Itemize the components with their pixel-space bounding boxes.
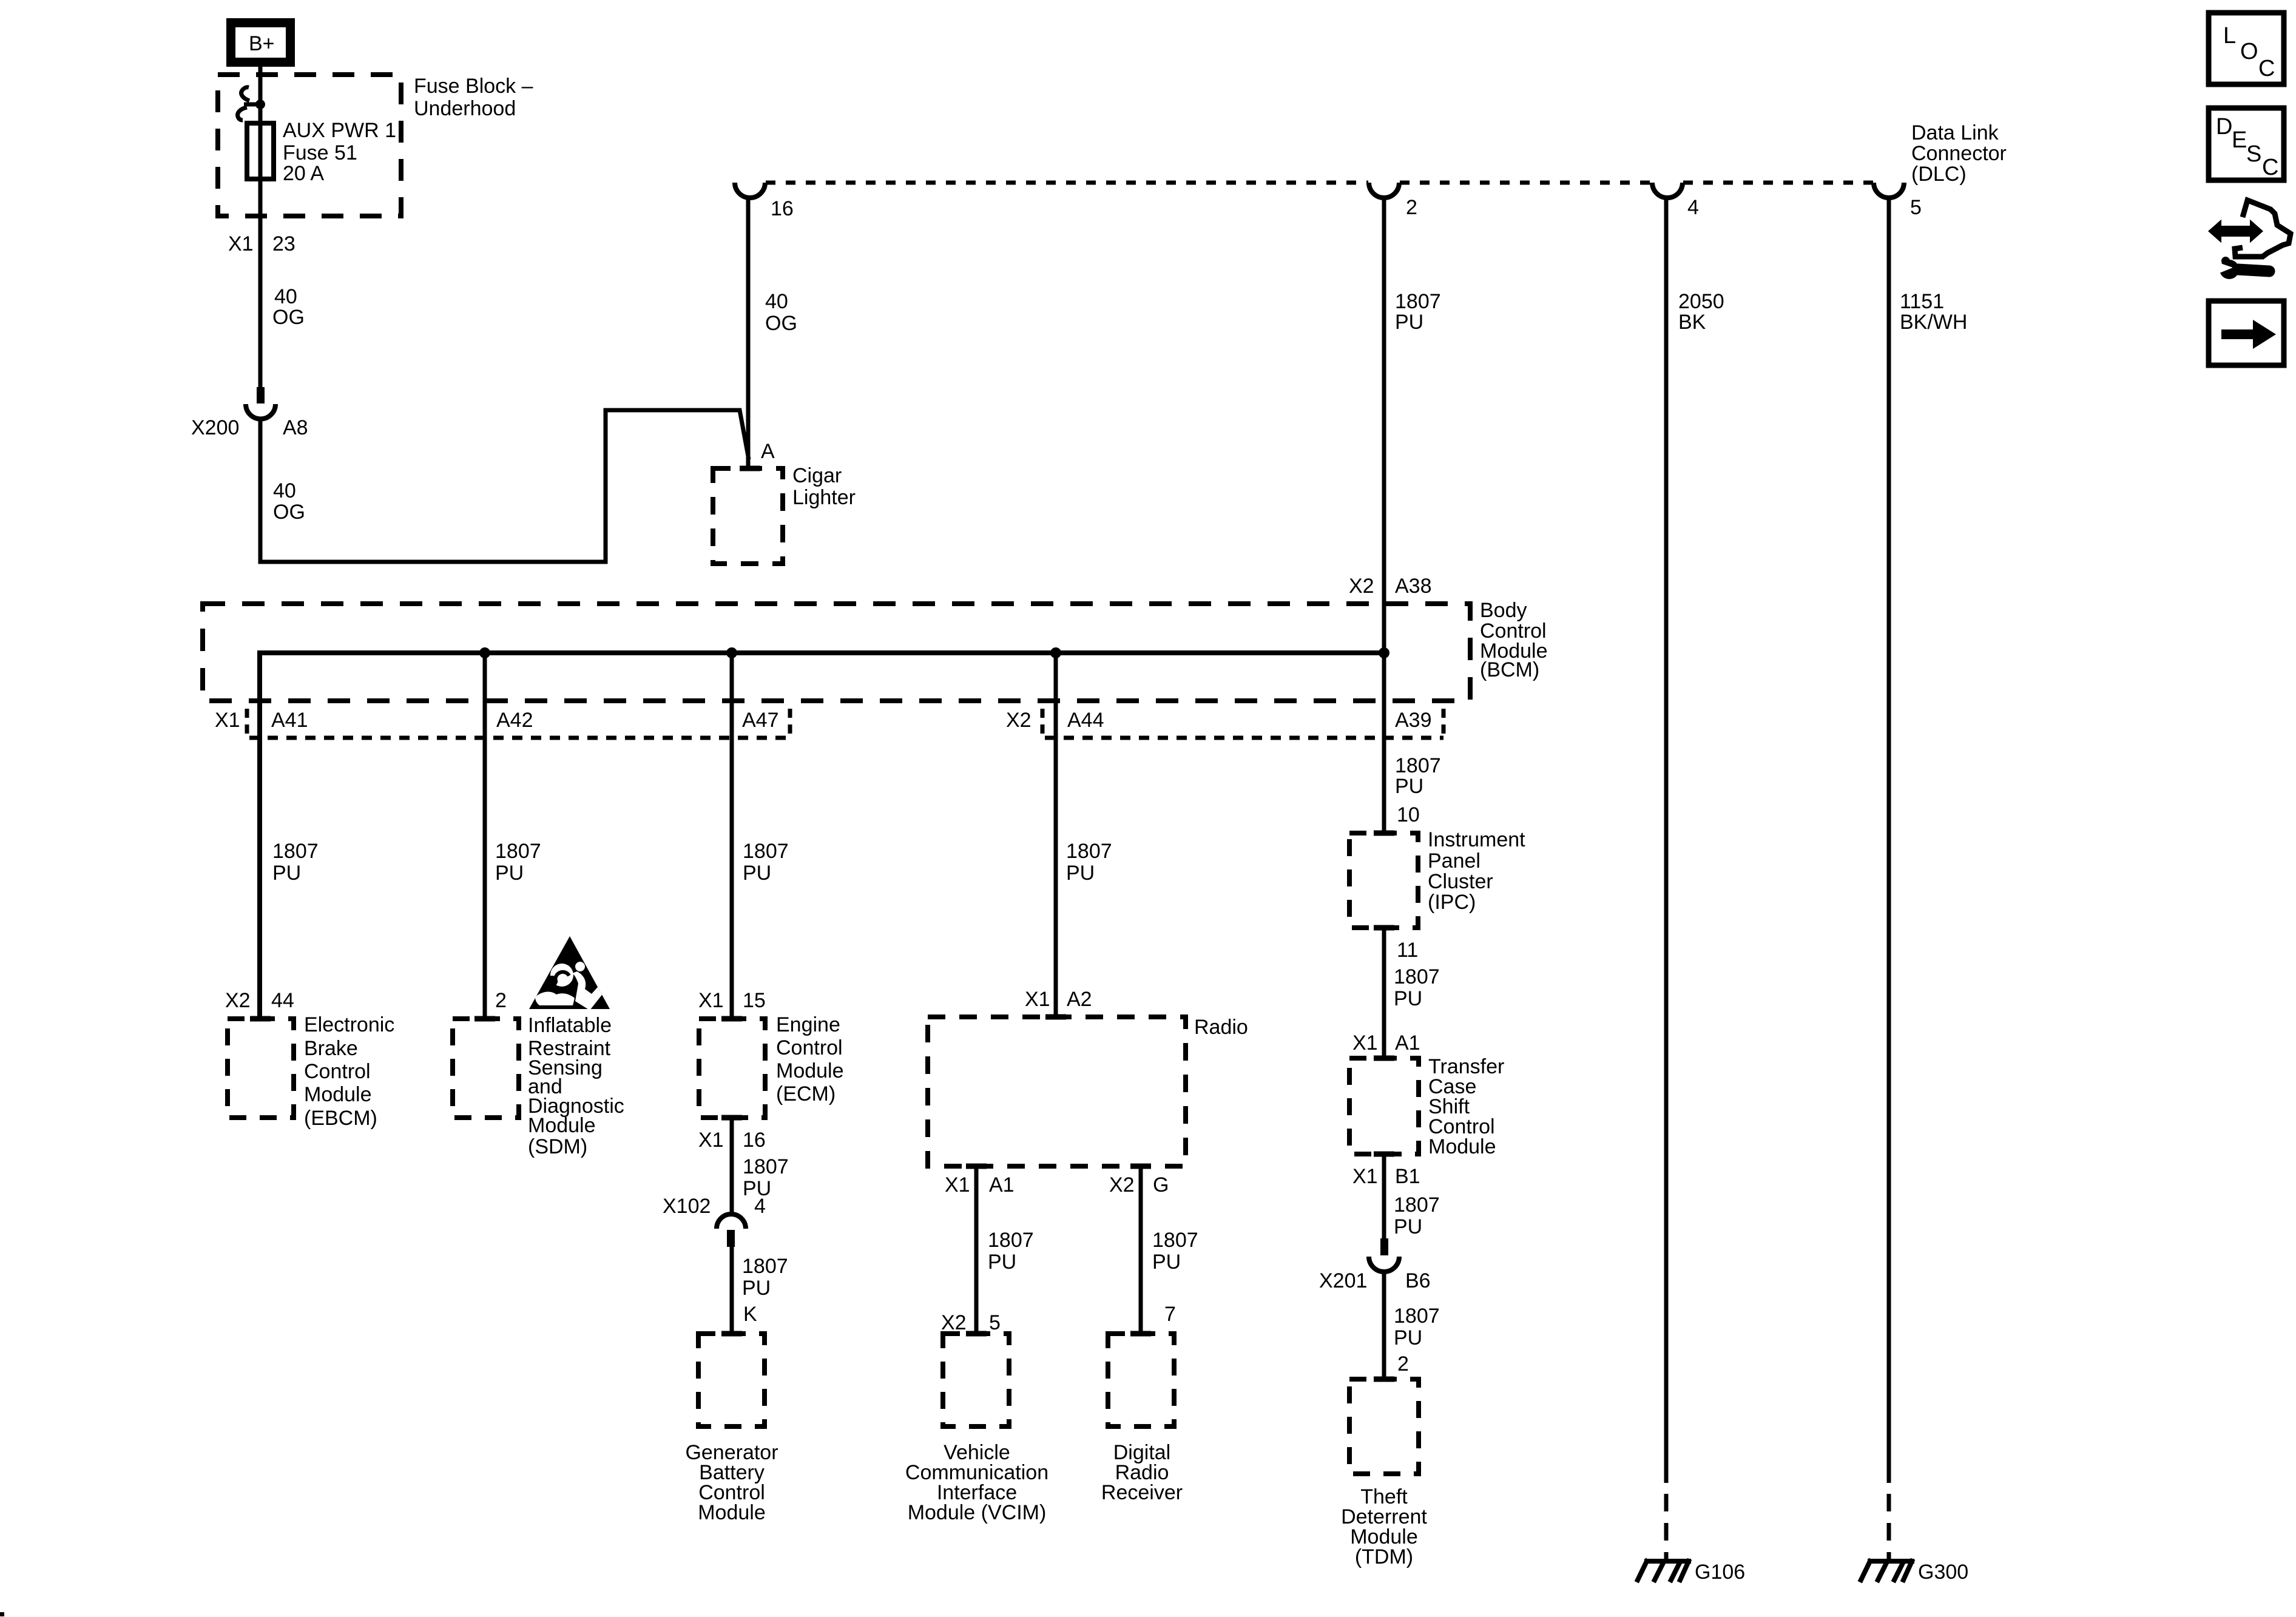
svg-text:1807: 1807 [1394, 965, 1440, 988]
theft deterrent module TDM dashed box [1349, 1379, 1419, 1474]
svg-text:G: G [1153, 1173, 1169, 1197]
BCM X1 connector bracket line [247, 709, 790, 738]
instrument panel cluster IPC dashed box [1349, 833, 1418, 928]
svg-text:A44: A44 [1067, 709, 1104, 732]
wire DLC pin 4 to ground G106 [1664, 198, 1669, 1483]
junction node A44 [1050, 647, 1061, 658]
wire radio A1 to VCIM [974, 1166, 979, 1334]
wire BCM A44 to radio [1054, 653, 1058, 1017]
svg-text:X200: X200 [191, 416, 239, 439]
speck bottom left [0, 1612, 4, 1616]
wire label 2050 BK [1678, 290, 1724, 334]
svg-text:Module: Module [304, 1083, 372, 1106]
svg-text:A: A [761, 440, 775, 463]
svg-text:10: 10 [1397, 803, 1420, 826]
pin labels X1 B1 [1352, 1165, 1420, 1188]
svg-text:Cigar: Cigar [792, 464, 842, 487]
pin T-bar at DRR top [1130, 1331, 1151, 1337]
vehicle adjust icon (car outline, double arrow, wrench) [2210, 200, 2291, 279]
wire label 1807 PU (IPC to TCSCM) [1394, 965, 1440, 1010]
svg-text:X2: X2 [941, 1311, 967, 1334]
svg-text:A42: A42 [496, 709, 533, 732]
wire label 1151 BK/WH [1900, 290, 1967, 334]
svg-text:1807: 1807 [495, 840, 541, 863]
svg-text:PU: PU [1394, 1326, 1422, 1349]
svg-text:Receiver: Receiver [1101, 1481, 1183, 1504]
wire label 1807 PU (A41) [272, 840, 319, 885]
svg-text:A1: A1 [989, 1173, 1015, 1197]
svg-text:OG: OG [273, 501, 305, 524]
pin T-bar at VCIM top [966, 1331, 987, 1337]
svg-text:1807: 1807 [272, 840, 319, 863]
pin T-bar at IPC bottom [1374, 925, 1394, 931]
label Body Control Module (BCM) [1480, 599, 1548, 681]
svg-text:A47: A47 [742, 709, 779, 732]
connector X102 (cup and blade) [717, 1214, 746, 1247]
svg-text:(IPC): (IPC) [1428, 891, 1476, 914]
radio dashed box [928, 1017, 1186, 1166]
svg-text:1807: 1807 [1152, 1229, 1198, 1252]
svg-text:PU: PU [1394, 1215, 1422, 1238]
svg-text:1807: 1807 [743, 1155, 789, 1178]
svg-text:40: 40 [274, 285, 297, 308]
transfer case shift control module dashed box [1349, 1058, 1419, 1154]
svg-text:15: 15 [743, 989, 766, 1012]
DLC pin 2 cup connector [1369, 183, 1399, 198]
svg-text:1807: 1807 [1395, 754, 1441, 777]
label Transfer Case Shift Control Module [1428, 1055, 1504, 1158]
label Instrument Panel Cluster (IPC) [1428, 828, 1525, 914]
svg-text:7: 7 [1164, 1303, 1176, 1326]
svg-text:(ECM): (ECM) [776, 1082, 836, 1106]
svg-text:A8: A8 [283, 416, 308, 439]
svg-text:X2: X2 [1006, 709, 1032, 732]
engine control module ECM dashed box [699, 1019, 765, 1118]
wire label 1807 PU (A44) [1066, 840, 1112, 885]
svg-text:1807: 1807 [988, 1229, 1034, 1252]
label Cigar Lighter [792, 464, 856, 509]
svg-text:X1: X1 [1025, 988, 1050, 1011]
svg-text:C: C [2258, 56, 2275, 81]
svg-text:PU: PU [1394, 987, 1422, 1010]
svg-text:Brake: Brake [304, 1037, 358, 1060]
label Theft Deterrent Module (TDM) [1341, 1485, 1427, 1568]
svg-text:Connector: Connector [1911, 142, 2007, 165]
ground G300 symbol [1861, 1561, 1912, 1580]
svg-text:PU: PU [743, 862, 771, 885]
svg-text:Fuse Block –: Fuse Block – [414, 75, 533, 98]
pin T-bar at SDM top [474, 1016, 495, 1022]
body control module BCM dashed box [203, 604, 1470, 701]
svg-text:B+: B+ [249, 32, 275, 55]
svg-text:Data Link: Data Link [1911, 121, 1999, 144]
pin labels X1 A1 (TCSCM) [1352, 1031, 1420, 1055]
svg-text:BK/WH: BK/WH [1900, 311, 1967, 334]
svg-text:Fuse 51: Fuse 51 [283, 141, 357, 164]
wire X201 to TDM [1382, 1272, 1386, 1379]
wire label 1807 PU (A47) [743, 840, 789, 885]
svg-text:A2: A2 [1067, 988, 1092, 1011]
svg-text:L: L [2223, 23, 2236, 49]
svg-text:1807: 1807 [1394, 1193, 1440, 1217]
DESC legend box [2209, 108, 2284, 180]
BCM pin labels X2 A38 [1349, 575, 1432, 598]
DLC pin 4 cup connector [1652, 183, 1683, 198]
svg-text:11: 11 [1397, 939, 1418, 962]
pin T-bar at radio bottom G [1130, 1164, 1151, 1169]
junction node in fuse block [255, 100, 265, 109]
wire BCM A47 to ECM [730, 653, 734, 1019]
svg-text:X2: X2 [1109, 1173, 1135, 1197]
wire label 40 OG (below X200) [273, 479, 305, 524]
svg-text:(SDM): (SDM) [528, 1135, 587, 1158]
svg-text:A41: A41 [271, 709, 308, 732]
label Digital Radio Receiver [1101, 1441, 1183, 1504]
wire DLC pin 5 to ground G300 [1887, 198, 1891, 1483]
connector pin labels X1 A41 A42 A47 [215, 709, 779, 732]
label Vehicle Communication Interface Module (VCIM) [905, 1441, 1048, 1524]
svg-text:D: D [2216, 114, 2232, 140]
BCM X2 connector bracket line [1042, 709, 1443, 738]
wire label 1807 PU (G drop) [1152, 1229, 1198, 1274]
pin labels X1 A1 (radio bottom) [945, 1173, 1015, 1197]
svg-text:OG: OG [272, 306, 305, 329]
svg-text:Engine: Engine [776, 1013, 840, 1036]
pin T-bar at radio top [1045, 1014, 1066, 1020]
pin T-bar at ECM bottom [721, 1115, 742, 1121]
svg-text:40: 40 [273, 479, 296, 502]
wire DLC pin 16 to cigar lighter [746, 198, 751, 468]
svg-text:X2: X2 [1349, 575, 1374, 598]
wire ECM pin 16 to X102 [730, 1118, 734, 1215]
svg-text:Module: Module [698, 1501, 766, 1524]
electronic brake control module EBCM dashed box [228, 1019, 294, 1118]
svg-text:20 A: 20 A [283, 162, 324, 185]
svg-text:44: 44 [271, 989, 294, 1012]
svg-text:K: K [743, 1303, 757, 1326]
label Generator Battery Control Module [685, 1441, 778, 1524]
wire label 40 OG (pin 16 drop) [765, 290, 797, 335]
svg-text:40: 40 [765, 290, 788, 313]
digital radio receiver dashed box [1108, 1334, 1174, 1426]
svg-text:Control: Control [304, 1060, 371, 1083]
svg-text:Module: Module [528, 1114, 596, 1137]
svg-text:BK: BK [1678, 311, 1706, 334]
svg-text:X102: X102 [663, 1195, 711, 1218]
wire BCM A42 to SDM [483, 653, 487, 1019]
wire label 1807 PU (A39 drop) [1395, 754, 1441, 798]
svg-text:5: 5 [989, 1311, 1001, 1334]
EBCM pin labels X2 44 [225, 989, 294, 1012]
wire label 1807 PU (A42) [495, 840, 541, 885]
svg-text:1807: 1807 [1394, 1305, 1440, 1328]
svg-text:Radio: Radio [1194, 1016, 1248, 1039]
svg-text:(BCM): (BCM) [1480, 658, 1539, 681]
connector pin labels X2 A44 A39 [1006, 709, 1432, 732]
svg-text:C: C [2262, 155, 2278, 180]
DLC dashed bus line [766, 181, 1873, 185]
svg-text:B1: B1 [1395, 1165, 1420, 1188]
svg-text:A1: A1 [1395, 1031, 1420, 1055]
svg-text:Cluster: Cluster [1428, 870, 1493, 893]
svg-text:Module: Module [1428, 1135, 1496, 1158]
svg-text:1807: 1807 [1395, 290, 1441, 313]
wire label 1807 PU (to GBCM) [742, 1255, 788, 1300]
svg-text:AUX PWR 1: AUX PWR 1 [283, 119, 396, 142]
svg-text:1151: 1151 [1900, 290, 1944, 313]
wire BCM A41 to EBCM [258, 701, 262, 1019]
cigar lighter dashed box [713, 468, 783, 564]
svg-text:X201: X201 [1319, 1269, 1367, 1292]
wire label 1807 PU (A1 drop) [988, 1229, 1034, 1274]
svg-text:X1: X1 [698, 989, 724, 1012]
bus tap hook symbol inside fuse block [238, 87, 260, 120]
wire from B+ through fuse block [258, 67, 263, 387]
svg-text:X1: X1 [215, 709, 240, 732]
svg-text:1807: 1807 [742, 1255, 788, 1278]
inflatable restraint sensing and diagnostic module SDM dashed box [453, 1019, 519, 1118]
svg-text:B6: B6 [1405, 1269, 1431, 1292]
svg-text:Panel: Panel [1428, 849, 1481, 873]
svg-text:X1: X1 [945, 1173, 970, 1197]
pin T-bar at GBCM top [721, 1331, 742, 1337]
connector X201 B6 (blade and cup) [1369, 1238, 1399, 1272]
svg-text:2: 2 [1397, 1352, 1409, 1376]
svg-text:2: 2 [1406, 196, 1417, 219]
fuse block underhood dashed box [218, 75, 401, 216]
wire X102 to generator battery control module [730, 1247, 734, 1334]
label Fuse Block - Underhood [414, 75, 533, 120]
wire from X200 down right and up to cigar lighter [260, 410, 749, 562]
radio pin labels X1 A2 [1025, 988, 1092, 1011]
svg-text:PU: PU [1395, 775, 1423, 798]
junction node A38/A39 [1379, 647, 1389, 658]
svg-text:G106: G106 [1695, 1561, 1745, 1584]
svg-text:16: 16 [771, 197, 794, 220]
svg-text:5: 5 [1910, 196, 1922, 219]
junction node A47 [726, 647, 737, 658]
generator battery control module dashed box [698, 1334, 765, 1426]
pin labels X2 5 (VCIM) [941, 1311, 1001, 1334]
svg-text:O: O [2240, 39, 2258, 64]
junction node A42 [479, 647, 490, 658]
pin T-bar at ECM top [721, 1016, 742, 1022]
svg-text:Instrument: Instrument [1428, 828, 1525, 851]
svg-text:2050: 2050 [1678, 290, 1724, 313]
svg-text:G300: G300 [1918, 1561, 1968, 1584]
svg-text:X1: X1 [1352, 1031, 1378, 1055]
svg-text:(TDM): (TDM) [1355, 1545, 1413, 1568]
wire IPC pin 11 to transfer case module [1382, 928, 1386, 1058]
vehicle communication interface module VCIM dashed box [943, 1334, 1009, 1426]
svg-text:X1: X1 [228, 232, 254, 255]
pin T-bar at TCSCM top [1374, 1056, 1394, 1061]
svg-text:1807: 1807 [1066, 840, 1112, 863]
svg-text:PU: PU [1152, 1251, 1181, 1274]
wire DLC pin 2 down to BCM and IPC [1382, 198, 1386, 833]
SDM airbag warning triangle icon [529, 936, 610, 1010]
svg-text:S: S [2246, 141, 2261, 167]
pin T-bar at radio bottom A1 [966, 1164, 987, 1169]
svg-text:Underhood: Underhood [414, 97, 516, 120]
B+ battery terminal symbol [226, 18, 295, 67]
label Electronic Brake Control Module (EBCM) [304, 1013, 394, 1130]
svg-text:PU: PU [272, 862, 301, 885]
label Data Link Connector (DLC) [1911, 121, 2007, 186]
svg-text:PU: PU [1395, 311, 1423, 334]
svg-text:Module: Module [776, 1059, 844, 1082]
svg-text:A39: A39 [1395, 709, 1432, 732]
svg-text:(DLC): (DLC) [1911, 163, 1967, 186]
pin T-bar at cigar lighter [740, 466, 760, 471]
label Engine Control Module (ECM) [776, 1013, 844, 1106]
svg-text:Inflatable: Inflatable [528, 1014, 612, 1037]
wire TCSCM B1 to X201 [1382, 1154, 1386, 1239]
svg-text:4: 4 [754, 1195, 766, 1218]
BCM internal bus wire [260, 653, 1384, 1019]
svg-text:PU: PU [495, 862, 524, 885]
svg-text:X1: X1 [1352, 1165, 1378, 1188]
wire label 40 OG (fuse to X200) [272, 285, 305, 329]
DLC pin 16 cup connector [735, 183, 765, 198]
DLC pin 5 cup connector [1874, 183, 1904, 198]
svg-text:16: 16 [743, 1129, 766, 1152]
svg-text:Lighter: Lighter [792, 486, 856, 509]
ground G106 symbol [1638, 1561, 1689, 1580]
svg-text:Control: Control [776, 1036, 843, 1059]
pin labels X2 G (radio bottom) [1109, 1173, 1169, 1197]
pin labels X1 23 [228, 232, 295, 255]
wire label 1807 PU (B1 drop) [1394, 1193, 1440, 1238]
wire radio G to digital radio receiver [1139, 1166, 1143, 1334]
svg-text:PU: PU [742, 1277, 771, 1300]
svg-text:23: 23 [272, 232, 295, 255]
pin T-bar at EBCM top [250, 1016, 271, 1022]
svg-text:PU: PU [1066, 862, 1095, 885]
ECM pin labels X1 15 [698, 989, 766, 1012]
svg-text:(EBCM): (EBCM) [304, 1107, 377, 1130]
svg-text:X2: X2 [225, 989, 251, 1012]
svg-text:1807: 1807 [743, 840, 789, 863]
pin T-bar at IPC top [1374, 831, 1394, 836]
wire label 1807 PU (ECM to X102) [743, 1155, 789, 1200]
svg-text:2: 2 [495, 989, 507, 1012]
wire label 1807 PU (pin 2 drop) [1395, 290, 1441, 334]
connector X200 A8 (blade and cup) [246, 387, 275, 419]
svg-text:Electronic: Electronic [304, 1013, 394, 1036]
svg-text:OG: OG [765, 312, 797, 335]
svg-text:4: 4 [1687, 196, 1699, 219]
wire label 1807 PU (to TDM) [1394, 1305, 1440, 1349]
svg-text:A38: A38 [1395, 575, 1432, 598]
pin labels X1 16 [698, 1129, 766, 1152]
label Inflatable Restraint Sensing and Diagnostic Module (SDM) [528, 1014, 624, 1158]
svg-text:PU: PU [988, 1251, 1016, 1274]
svg-text:E: E [2232, 127, 2247, 153]
svg-text:X1: X1 [698, 1129, 724, 1152]
fuse AUX PWR 1 Fuse 51 20 A [247, 119, 396, 185]
LOC legend box [2209, 13, 2284, 84]
pin T-bar at TCSCM bottom [1374, 1152, 1394, 1157]
svg-text:Module (VCIM): Module (VCIM) [908, 1501, 1047, 1524]
svg-text:Body: Body [1480, 599, 1527, 622]
forward arrow legend box [2209, 301, 2284, 365]
pin T-bar at TDM top [1374, 1377, 1394, 1382]
